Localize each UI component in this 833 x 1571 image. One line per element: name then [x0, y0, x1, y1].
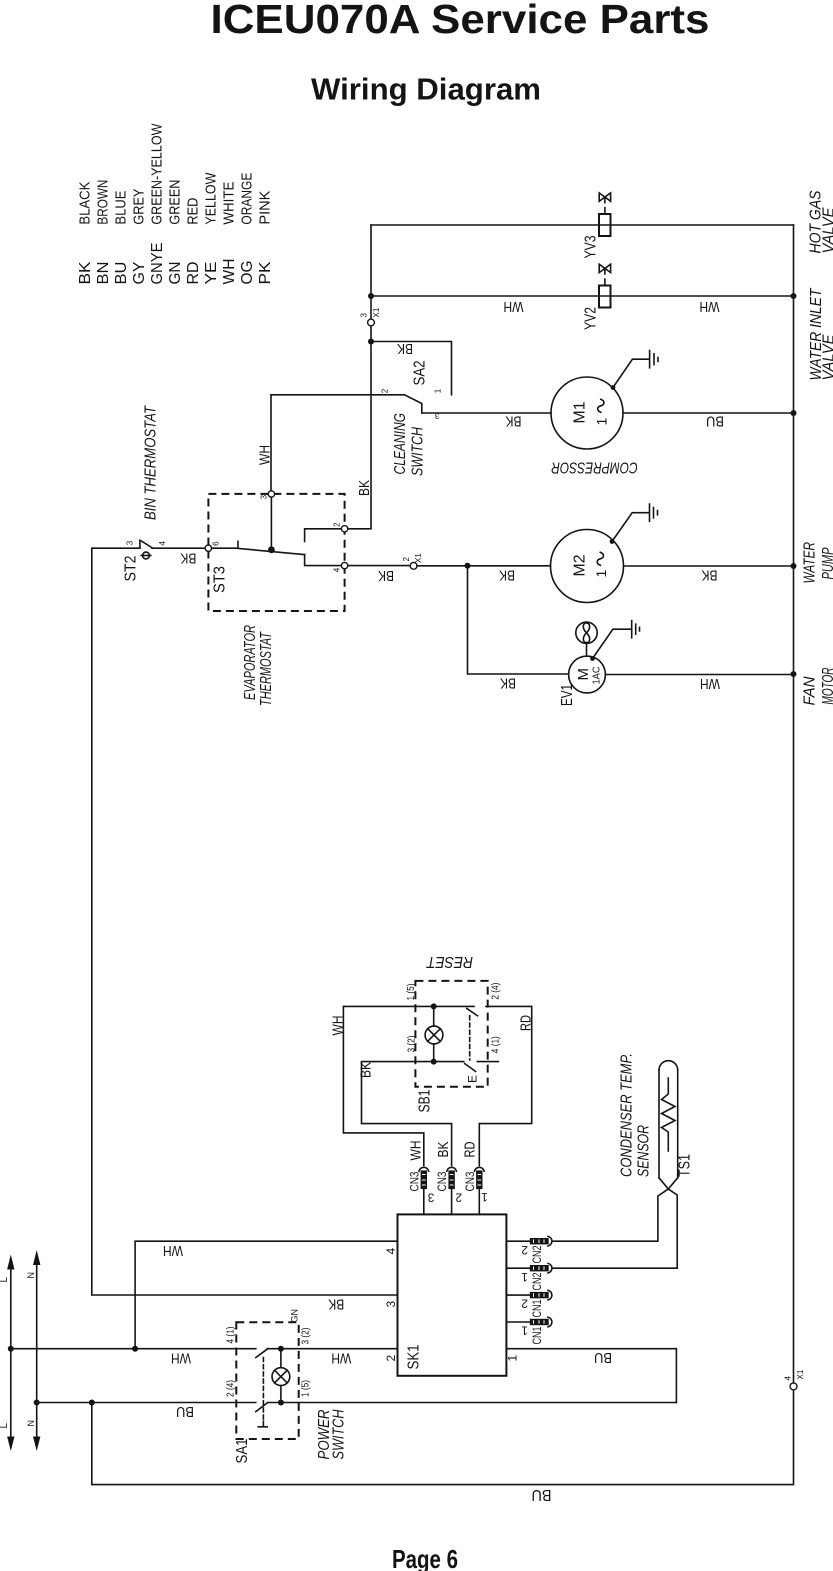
svg-text:GREY: GREY	[131, 189, 148, 225]
svg-text:1 (5): 1 (5)	[406, 984, 417, 1001]
svg-text:WH: WH	[221, 259, 238, 285]
wire BU bottom run to X1-4	[92, 1390, 794, 1485]
motor M1 compressor	[551, 377, 623, 449]
svg-text:1: 1	[593, 570, 609, 578]
wire junction to SA2 terminal 1	[371, 342, 452, 395]
svg-text:BK: BK	[397, 340, 413, 357]
node SB1 lower junction	[431, 1059, 437, 1065]
svg-text:BLUE: BLUE	[113, 191, 130, 225]
terminal 6 of ST3	[205, 545, 211, 551]
svg-text:ST2: ST2	[122, 555, 139, 581]
connector CN2 pin2	[506, 1236, 552, 1246]
svg-text:EV1: EV1	[559, 684, 576, 706]
switch SB1 dashed box	[415, 981, 487, 1087]
svg-text:CONDENSER TEMP.: CONDENSER TEMP.	[619, 1053, 636, 1177]
svg-text:TS1: TS1	[677, 1154, 694, 1177]
connector CN3 pin3	[419, 1167, 429, 1214]
node SA1 upper junction	[278, 1346, 284, 1352]
node junction WH branch	[132, 1346, 138, 1352]
terminal X1 pin2	[410, 562, 417, 569]
svg-text:2: 2	[521, 1297, 528, 1311]
svg-text:RESET: RESET	[426, 953, 473, 970]
svg-text:CLEANING: CLEANING	[392, 413, 409, 475]
terminal 3 of ST3	[268, 491, 274, 497]
node junction on L arrow	[8, 1346, 14, 1352]
coil YV2	[599, 286, 611, 308]
svg-text:BU: BU	[113, 262, 130, 285]
wire SB1 lower contact right stub 4 (1)	[477, 1061, 498, 1063]
connector CN3 pin2	[447, 1167, 457, 1214]
node junction BU branch	[89, 1400, 95, 1406]
wire ST3 contact 4	[305, 555, 348, 566]
svg-text:4: 4	[784, 1376, 793, 1381]
svg-text:SA2: SA2	[412, 360, 429, 385]
supply arrow L	[7, 1255, 14, 1452]
svg-text:BIN THERMOSTAT: BIN THERMOSTAT	[143, 405, 160, 520]
svg-text:Page 6: Page 6	[392, 1544, 458, 1571]
svg-text:1: 1	[594, 418, 610, 426]
svg-text:YELLOW: YELLOW	[203, 172, 220, 225]
svg-text:ICEU070A Service Parts: ICEU070A Service Parts	[211, 0, 710, 42]
svg-text:WATER: WATER	[802, 542, 819, 584]
svg-text:3 (2): 3 (2)	[301, 1328, 312, 1345]
svg-text:3: 3	[126, 540, 135, 545]
svg-text:3: 3	[360, 313, 369, 318]
svg-text:WH: WH	[257, 445, 274, 465]
svg-text:L: L	[0, 1277, 10, 1283]
terminal 2 of ST3	[341, 526, 347, 532]
svg-text:YV3: YV3	[583, 235, 600, 258]
motor EV1 fan	[569, 656, 606, 693]
switch ST3 blade	[238, 541, 305, 554]
svg-text:3: 3	[434, 411, 439, 420]
wire WH branch to SK1 pin4	[135, 1241, 397, 1349]
svg-text:SB1: SB1	[417, 1089, 434, 1112]
wire BK route SK1 pin CN3-2 to SB1	[362, 1062, 452, 1166]
svg-text:BK: BK	[506, 413, 522, 430]
wire WH drop from SA2 line to ST3 pin3	[270, 395, 272, 491]
svg-text:X1: X1	[372, 307, 381, 317]
svg-text:1: 1	[506, 1355, 520, 1362]
svg-text:L: L	[0, 1423, 10, 1429]
svg-text:M2: M2	[572, 554, 589, 576]
svg-text:ST3: ST3	[212, 566, 229, 593]
svg-text:WH: WH	[700, 675, 720, 692]
valve symbol YV2	[599, 264, 610, 272]
svg-text:1: 1	[434, 388, 443, 393]
svg-text:2: 2	[380, 388, 389, 393]
node water line bus junction	[791, 293, 797, 299]
wire water inlet valve line	[371, 295, 794, 297]
svg-text:WH: WH	[700, 298, 720, 315]
wire ST3 contact 2	[305, 529, 348, 542]
node M2 bus junction	[791, 563, 797, 569]
svg-text:SWITCH: SWITCH	[410, 427, 427, 476]
svg-text:SWITCH: SWITCH	[331, 1409, 348, 1459]
svg-text:2: 2	[521, 1243, 528, 1257]
svg-text:WH: WH	[330, 1016, 347, 1036]
wire SB1 upper contact right	[486, 1005, 532, 1007]
svg-text:N: N	[26, 1272, 36, 1279]
wire SA1 upper pole to SK1 pin2	[268, 1348, 398, 1350]
svg-text:2 (4): 2 (4)	[226, 1380, 237, 1397]
svg-text:X1: X1	[796, 1369, 805, 1379]
node fan branch junction	[465, 563, 471, 569]
svg-text:VALVE: VALVE	[821, 207, 833, 253]
svg-text:4 (1): 4 (1)	[226, 1327, 237, 1344]
svg-text:4: 4	[332, 567, 341, 572]
wire M2 to bus	[624, 565, 794, 567]
wire X1-2 to M2	[417, 565, 551, 567]
svg-text:BLACK: BLACK	[77, 182, 94, 225]
svg-text:GREEN-YELLOW: GREEN-YELLOW	[149, 123, 166, 225]
svg-text:1: 1	[481, 1190, 488, 1204]
resistor element of TS1	[662, 1078, 676, 1151]
svg-text:FAN: FAN	[802, 676, 819, 705]
connector CN1 pin1	[506, 1317, 552, 1327]
svg-text:6: 6	[212, 541, 221, 546]
svg-text:CN1: CN1	[530, 1299, 544, 1317]
wire SA1 lower pole to riser	[268, 1402, 677, 1404]
svg-text:PK: PK	[257, 261, 274, 284]
supply arrow N	[33, 1250, 40, 1451]
svg-text:3: 3	[384, 1301, 398, 1308]
svg-text:THERMOSTAT: THERMOSTAT	[258, 631, 275, 706]
ground EV1	[590, 621, 639, 661]
node SA1 lower junction	[278, 1400, 284, 1406]
valve symbol YV3	[599, 193, 610, 201]
svg-text:CN1: CN1	[530, 1326, 544, 1344]
svg-text:RD: RD	[518, 1015, 535, 1031]
svg-text:1: 1	[521, 1270, 528, 1284]
wire CN2-2 to TS1	[553, 1189, 668, 1241]
svg-text:RD: RD	[185, 262, 202, 285]
connector CN1 pin2	[506, 1290, 552, 1300]
fan blade symbol	[576, 622, 597, 656]
svg-text:YV2: YV2	[583, 307, 600, 330]
ground M2	[610, 504, 658, 544]
svg-text:2: 2	[402, 557, 411, 562]
coil YV3	[599, 214, 611, 236]
svg-text:RED: RED	[185, 197, 202, 224]
svg-text:Wiring Diagram: Wiring Diagram	[311, 72, 541, 107]
wire ST3 pin3 internal	[270, 497, 272, 550]
svg-text:WH: WH	[504, 298, 524, 315]
wire BU line from N to SA1	[37, 1402, 256, 1404]
terminal X1 pin3	[368, 319, 375, 326]
thermostat ST2 contact	[140, 540, 205, 548]
svg-text:GN: GN	[167, 262, 184, 285]
svg-text:BK: BK	[499, 566, 515, 583]
svg-text:ORANGE: ORANGE	[239, 173, 256, 225]
node water line left junction	[368, 293, 374, 299]
svg-text:WH: WH	[163, 1242, 183, 1259]
svg-text:2: 2	[332, 522, 341, 527]
actuator link SA1	[258, 1358, 267, 1427]
svg-text:CN3: CN3	[435, 1171, 449, 1191]
svg-text:GY: GY	[131, 261, 148, 284]
wire left rail down to SK1 pin3	[92, 548, 398, 1295]
svg-text:EVAPORATOR: EVAPORATOR	[242, 625, 259, 700]
svg-text:BN: BN	[95, 262, 112, 285]
svg-text:SENSOR: SENSOR	[636, 1125, 653, 1177]
svg-text:M: M	[575, 668, 592, 681]
svg-text:GN: GN	[290, 1309, 300, 1323]
svg-text:RD: RD	[461, 1141, 478, 1157]
svg-text:3: 3	[427, 1190, 434, 1204]
node ST3 blade junction	[268, 546, 275, 553]
wire X1-3 to junction	[370, 326, 372, 342]
svg-text:1: 1	[521, 1324, 528, 1338]
node junction SA2 feed	[368, 339, 374, 345]
svg-text:BROWN: BROWN	[95, 180, 112, 225]
wire WH line from L to SA1	[11, 1348, 256, 1350]
wire CN2-1 to TS1	[553, 1189, 677, 1268]
svg-text:M1: M1	[572, 401, 589, 423]
switch SA1 upper blade	[256, 1349, 268, 1358]
svg-text:COMPRESSOR: COMPRESSOR	[551, 458, 638, 475]
svg-text:BU: BU	[532, 1486, 552, 1503]
svg-text:CN3: CN3	[463, 1171, 477, 1191]
svg-text:PINK: PINK	[257, 191, 274, 225]
switch SB1 lower blade	[465, 1064, 476, 1072]
wire WH route SK1 pin CN3-3 to SB1	[343, 1006, 430, 1165]
lamp of SA1	[272, 1352, 290, 1399]
svg-text:4: 4	[158, 541, 167, 546]
svg-text:4: 4	[384, 1248, 398, 1255]
wire M1 to bus	[623, 412, 794, 414]
thermal symbol of ST2	[141, 552, 151, 559]
switch SB1 upper blade	[467, 1008, 478, 1015]
svg-text:BU: BU	[176, 1403, 194, 1420]
wire right bus	[793, 225, 795, 1383]
terminal 4 of ST3	[341, 562, 347, 568]
wire fan branch down and to EV1	[468, 566, 569, 674]
wire hot-gas top line	[371, 224, 794, 226]
wire SB1 upper contact left	[434, 1005, 474, 1007]
svg-text:SK1: SK1	[406, 1344, 423, 1369]
svg-text:2: 2	[384, 1355, 398, 1362]
connector CN3 pin1	[475, 1167, 485, 1214]
svg-text:1AC: 1AC	[592, 667, 603, 685]
svg-text:BK: BK	[356, 480, 373, 496]
svg-text:YE: YE	[203, 262, 220, 285]
svg-text:BU: BU	[706, 413, 724, 430]
node junction on N arrow	[34, 1400, 40, 1406]
wire SB1 lower contact left	[434, 1061, 464, 1063]
board SK1	[398, 1214, 507, 1375]
svg-text:E: E	[466, 1075, 480, 1083]
svg-text:CN2: CN2	[530, 1245, 544, 1263]
switch SA1 dashed box	[236, 1322, 298, 1439]
actuator link SB1	[469, 1016, 471, 1060]
svg-text:BK: BK	[328, 1296, 344, 1313]
svg-text:GREEN: GREEN	[167, 180, 184, 225]
svg-text:CN3: CN3	[407, 1171, 421, 1191]
thermostat ST3 dashed box	[208, 494, 344, 611]
terminal X1 pin4	[790, 1383, 797, 1390]
svg-text:BK: BK	[378, 567, 394, 584]
wire ST3 pin2 up to SA2 junction	[348, 342, 371, 529]
svg-text:VALVE: VALVE	[821, 334, 833, 380]
svg-text:BK: BK	[77, 261, 94, 284]
wire RD route SK1 pin CN3-1 to SB1	[479, 1006, 531, 1165]
svg-text:WHITE: WHITE	[221, 182, 238, 225]
svg-text:2: 2	[455, 1190, 462, 1204]
svg-text:SA1: SA1	[234, 1438, 251, 1463]
wire ST3 pin4 to X1-2	[348, 565, 410, 567]
wire ST3 pin6 internal	[212, 547, 238, 549]
wire SK1 pin1 to BU line	[506, 1349, 676, 1403]
wire left rail to ST2	[92, 547, 140, 549]
svg-text:1 (5): 1 (5)	[301, 1380, 312, 1397]
wire SA2 terminal 2 line	[271, 394, 405, 396]
svg-text:2 (4): 2 (4)	[490, 983, 501, 1000]
svg-text:CN2: CN2	[530, 1272, 544, 1290]
wire riser from X1-3 to top line	[370, 225, 372, 319]
svg-text:X1: X1	[414, 553, 423, 563]
svg-text:BK: BK	[702, 566, 718, 583]
svg-text:BU: BU	[594, 1349, 612, 1366]
node M1 bus junction	[791, 410, 797, 416]
switch SA2 blade	[405, 395, 422, 413]
connector CN2 pin1	[506, 1263, 552, 1273]
switch SA1 lower blade	[256, 1403, 268, 1412]
node EV1 bus junction	[791, 671, 797, 677]
svg-text:WH: WH	[331, 1349, 351, 1366]
svg-text:BK: BK	[500, 675, 516, 692]
svg-text:3 (2): 3 (2)	[407, 1036, 418, 1053]
svg-text:WH: WH	[407, 1141, 424, 1161]
svg-text:BK: BK	[435, 1142, 452, 1158]
svg-text:BK: BK	[180, 549, 196, 566]
motor M2 water pump	[551, 530, 624, 603]
svg-text:OG: OG	[239, 261, 256, 285]
svg-text:MOTOR: MOTOR	[820, 667, 833, 704]
wire EV1 to bus	[605, 674, 793, 676]
node SB1 upper junction	[431, 1003, 437, 1009]
svg-text:GNYE: GNYE	[149, 243, 166, 285]
svg-text:4 (1): 4 (1)	[490, 1036, 501, 1053]
svg-text:PUMP: PUMP	[820, 547, 833, 579]
ground M1	[611, 351, 658, 390]
lamp of SB1	[425, 1009, 443, 1058]
svg-text:WH: WH	[171, 1349, 191, 1366]
sensor TS1 capsule	[659, 1061, 678, 1189]
svg-text:BK: BK	[358, 1062, 375, 1078]
wire SA2 to M1	[422, 412, 551, 414]
svg-text:3: 3	[259, 494, 268, 499]
svg-text:N: N	[26, 1420, 36, 1427]
